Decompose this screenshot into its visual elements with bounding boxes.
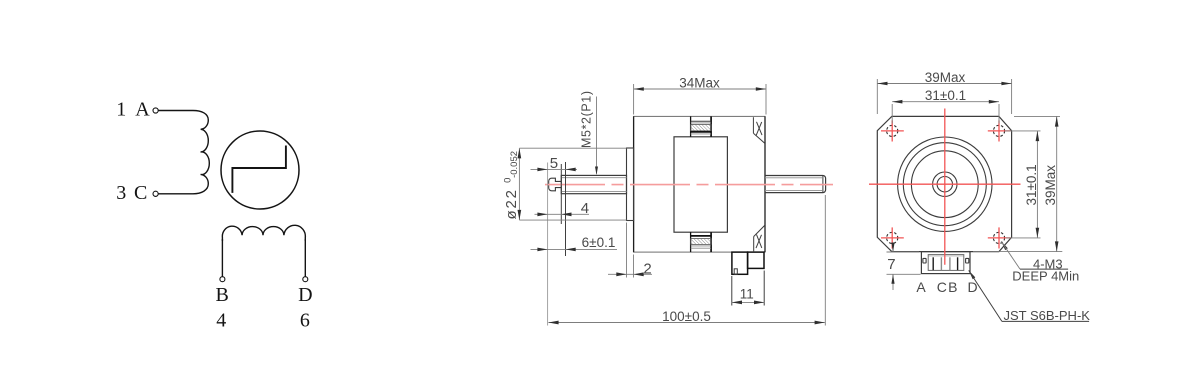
svg-text:B: B: [948, 279, 957, 295]
svg-text:C: C: [937, 279, 947, 295]
terminal node B: [220, 277, 225, 282]
mounting hole centerline crosses: [881, 120, 1011, 248]
dimension 39Max (height): [973, 116, 1062, 251]
shaft tip cap (left): [549, 178, 562, 191]
pin number 6: [300, 310, 310, 332]
dimension 31±0.1 (hole spacing vertical): [1005, 131, 1041, 238]
phase winding label 3C: [116, 182, 147, 204]
surface finish mark (bottom right): [754, 226, 765, 253]
motor body outline (side view): [634, 116, 765, 252]
phase winding label 1A: [116, 99, 150, 121]
svg-text:6±0.1: 6±0.1: [582, 235, 616, 250]
dimension 31±0.1 (hole spacing horizontal): [892, 88, 999, 123]
svg-text:M5*2(P1): M5*2(P1): [580, 90, 594, 148]
svg-text:B: B: [216, 284, 229, 306]
dimension 5: [531, 155, 578, 172]
dimension 39Max (width): [877, 70, 1011, 114]
svg-text:11: 11: [740, 286, 754, 301]
motor face outline (chamfered square): [877, 116, 1011, 251]
coil L2 (phase B-D): [222, 225, 305, 241]
svg-text:39Max: 39Max: [925, 70, 966, 85]
JST connector (front view): [921, 252, 970, 274]
svg-text:5: 5: [550, 155, 558, 172]
svg-text:31±0.1: 31±0.1: [1024, 164, 1039, 205]
svg-text:39Max: 39Max: [1043, 165, 1058, 206]
threaded shaft M5 (left): [561, 175, 626, 193]
terminal label D: [298, 284, 312, 306]
motor symbol circle: [221, 131, 299, 209]
dimension Ø22 0/-0.052: [503, 148, 627, 220]
dimension 34Max: [634, 75, 766, 114]
svg-text:7: 7: [887, 256, 895, 273]
wire coil to B: [221, 239, 223, 277]
svg-text:100±0.5: 100±0.5: [662, 309, 711, 324]
svg-text:D: D: [298, 284, 312, 306]
wire A to coil: [158, 110, 193, 112]
svg-text:A: A: [916, 279, 926, 295]
coil L1 (phase A-C): [158, 111, 209, 194]
shaft (right): [765, 176, 826, 193]
dimension 11 (connector width): [732, 271, 764, 306]
svg-text:1: 1: [116, 99, 126, 121]
svg-text:ø22: ø22: [503, 188, 520, 219]
svg-text:3: 3: [116, 182, 126, 204]
dimension 4: [535, 200, 590, 217]
svg-text:C: C: [134, 182, 147, 204]
rotor/stator inner rectangle: [674, 137, 727, 232]
svg-text:-0.052: -0.052: [509, 151, 520, 178]
terminal node D: [303, 277, 308, 282]
extension lines shaft tip: [548, 162, 566, 326]
svg-text:A: A: [135, 99, 150, 121]
svg-text:31±0.1: 31±0.1: [925, 88, 966, 103]
svg-text:JST S6B-PH-K: JST S6B-PH-K: [1004, 308, 1091, 323]
svg-text:4: 4: [216, 310, 226, 332]
terminal node 3C: [153, 191, 158, 196]
svg-text:4: 4: [581, 200, 589, 217]
dimension 7 (connector height): [887, 243, 921, 291]
top bearing (hatched): [691, 116, 712, 136]
connector pin labels A C B D: [916, 279, 977, 295]
dimension 100±0.5 (overall length): [548, 195, 825, 326]
4x M3 mounting holes (dashed circles): [887, 125, 1005, 243]
centerline (shaft axis): [545, 184, 833, 186]
dimension 6±0.1: [531, 235, 618, 251]
svg-text:2: 2: [643, 261, 651, 278]
main centerline cross (front view): [869, 109, 1021, 265]
callout 4-M3 DEEP 4Min: [1001, 241, 1079, 283]
shaft boss circles: [933, 172, 957, 196]
front face circles: [898, 137, 992, 231]
front pilot boss (2mm): [627, 148, 634, 221]
bottom bearing (hatched): [691, 232, 712, 252]
thread callout M5*2(P1): [580, 90, 599, 175]
svg-text:DEEP 4Min: DEEP 4Min: [1012, 269, 1079, 284]
surface finish mark (top right): [753, 117, 764, 143]
callout JST S6B-PH-K: [969, 270, 1091, 323]
dimension 2 (boss height): [608, 223, 652, 278]
motor symbol step line: [232, 146, 286, 193]
pin number 4: [216, 310, 226, 332]
terminal label B: [216, 284, 229, 306]
terminal node 1A: [153, 108, 158, 113]
svg-text:6: 6: [300, 310, 310, 332]
svg-text:34Max: 34Max: [679, 75, 720, 90]
wire coil to D: [304, 239, 306, 277]
connector housing (side view): [732, 252, 764, 274]
